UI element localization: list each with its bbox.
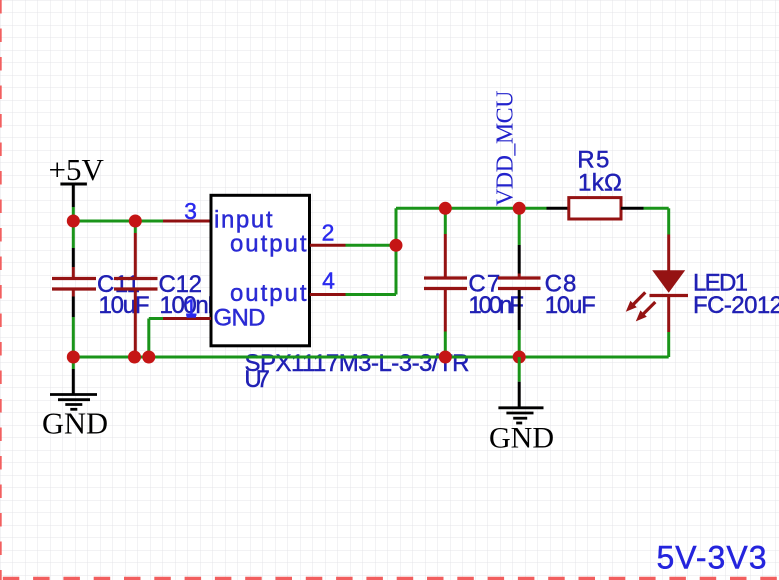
svg-text:U7: U7 — [244, 366, 270, 393]
svg-text:VDD_MCU: VDD_MCU — [493, 91, 519, 207]
wire bottom bus green — [73, 356, 668, 359]
svg-text:1kΩ: 1kΩ — [578, 170, 622, 197]
wire top-left rail — [73, 220, 163, 223]
wire C8 top branch — [518, 208, 521, 276]
svg-text:100nF: 100nF — [468, 292, 524, 319]
junction dot output — [390, 239, 403, 252]
svg-text:5V-3V3: 5V-3V3 — [657, 539, 767, 575]
svg-text:3: 3 — [184, 198, 197, 224]
svg-text:10uF: 10uF — [545, 292, 596, 319]
wire R5 to LED corner green — [644, 208, 669, 234]
wire LED bottom green — [667, 332, 670, 357]
wire C11 top branch — [72, 221, 75, 277]
svg-text:2: 2 — [322, 220, 335, 246]
wire output vertical green — [395, 208, 398, 294]
junction dot bottom C7 — [439, 351, 452, 364]
svg-text:input: input — [214, 207, 273, 234]
junction dot bottom pin1 — [142, 351, 155, 364]
wire pin3 input red — [163, 220, 211, 223]
capacitor C7 — [424, 271, 524, 320]
wire pin4 output red — [310, 293, 346, 296]
wire pin1 elbow green — [149, 319, 163, 358]
junction dot top rail C8 — [513, 202, 526, 215]
junction dot bottom C12 — [128, 351, 141, 364]
wire C8 bottom branch — [518, 290, 521, 357]
LED arrow 2 — [643, 302, 656, 315]
wire C12 bottom branch — [134, 290, 137, 357]
svg-text:SPX1117M3-L-3-3/TR: SPX1117M3-L-3-3/TR — [245, 350, 470, 377]
sheet border left dashed — [0, 0, 2, 580]
svg-text:output: output — [230, 231, 307, 258]
wire C11 bottom branch — [72, 290, 75, 357]
wire C7 top branch — [444, 208, 447, 276]
wire pin2 green — [346, 244, 397, 247]
power symbol +5V — [49, 152, 105, 207]
wire pin2 output red — [310, 244, 346, 247]
wire pin4 green — [346, 293, 397, 296]
wire C12 top branch — [134, 221, 137, 277]
svg-text:4: 4 — [322, 268, 335, 294]
junction dot bottom C8 — [513, 351, 526, 364]
wire pin1 GND red — [163, 317, 211, 320]
capacitor C11 — [52, 271, 150, 319]
svg-text:+5V: +5V — [49, 152, 105, 187]
wire +5V stem green — [72, 207, 75, 221]
ground left — [42, 357, 108, 441]
svg-text:FC-2012: FC-2012 — [693, 292, 779, 319]
svg-text:GND: GND — [489, 422, 554, 455]
svg-text:output: output — [230, 280, 307, 307]
svg-text:10uF: 10uF — [99, 292, 150, 319]
ground right — [489, 357, 554, 455]
resistor R5 — [547, 147, 644, 220]
LED arrow 1 — [633, 292, 646, 305]
junction dot top-left 1 — [67, 215, 80, 228]
wire output top rail green — [396, 207, 547, 210]
sheet border bottom dashed — [0, 577, 779, 580]
svg-text:GND: GND — [214, 305, 266, 332]
capacitor C12 — [114, 271, 222, 319]
junction dot top rail C7 — [439, 202, 452, 215]
capacitor C8 — [498, 271, 596, 320]
pin number 1 — [185, 295, 198, 321]
wire C7 bottom branch — [444, 290, 447, 357]
op-amp U7 regulator box — [211, 195, 310, 345]
LED LED1 — [626, 235, 779, 333]
junction dot top-left 2 — [129, 215, 142, 228]
svg-text:GND: GND — [42, 407, 108, 441]
junction dot bottom C11 — [67, 351, 80, 364]
